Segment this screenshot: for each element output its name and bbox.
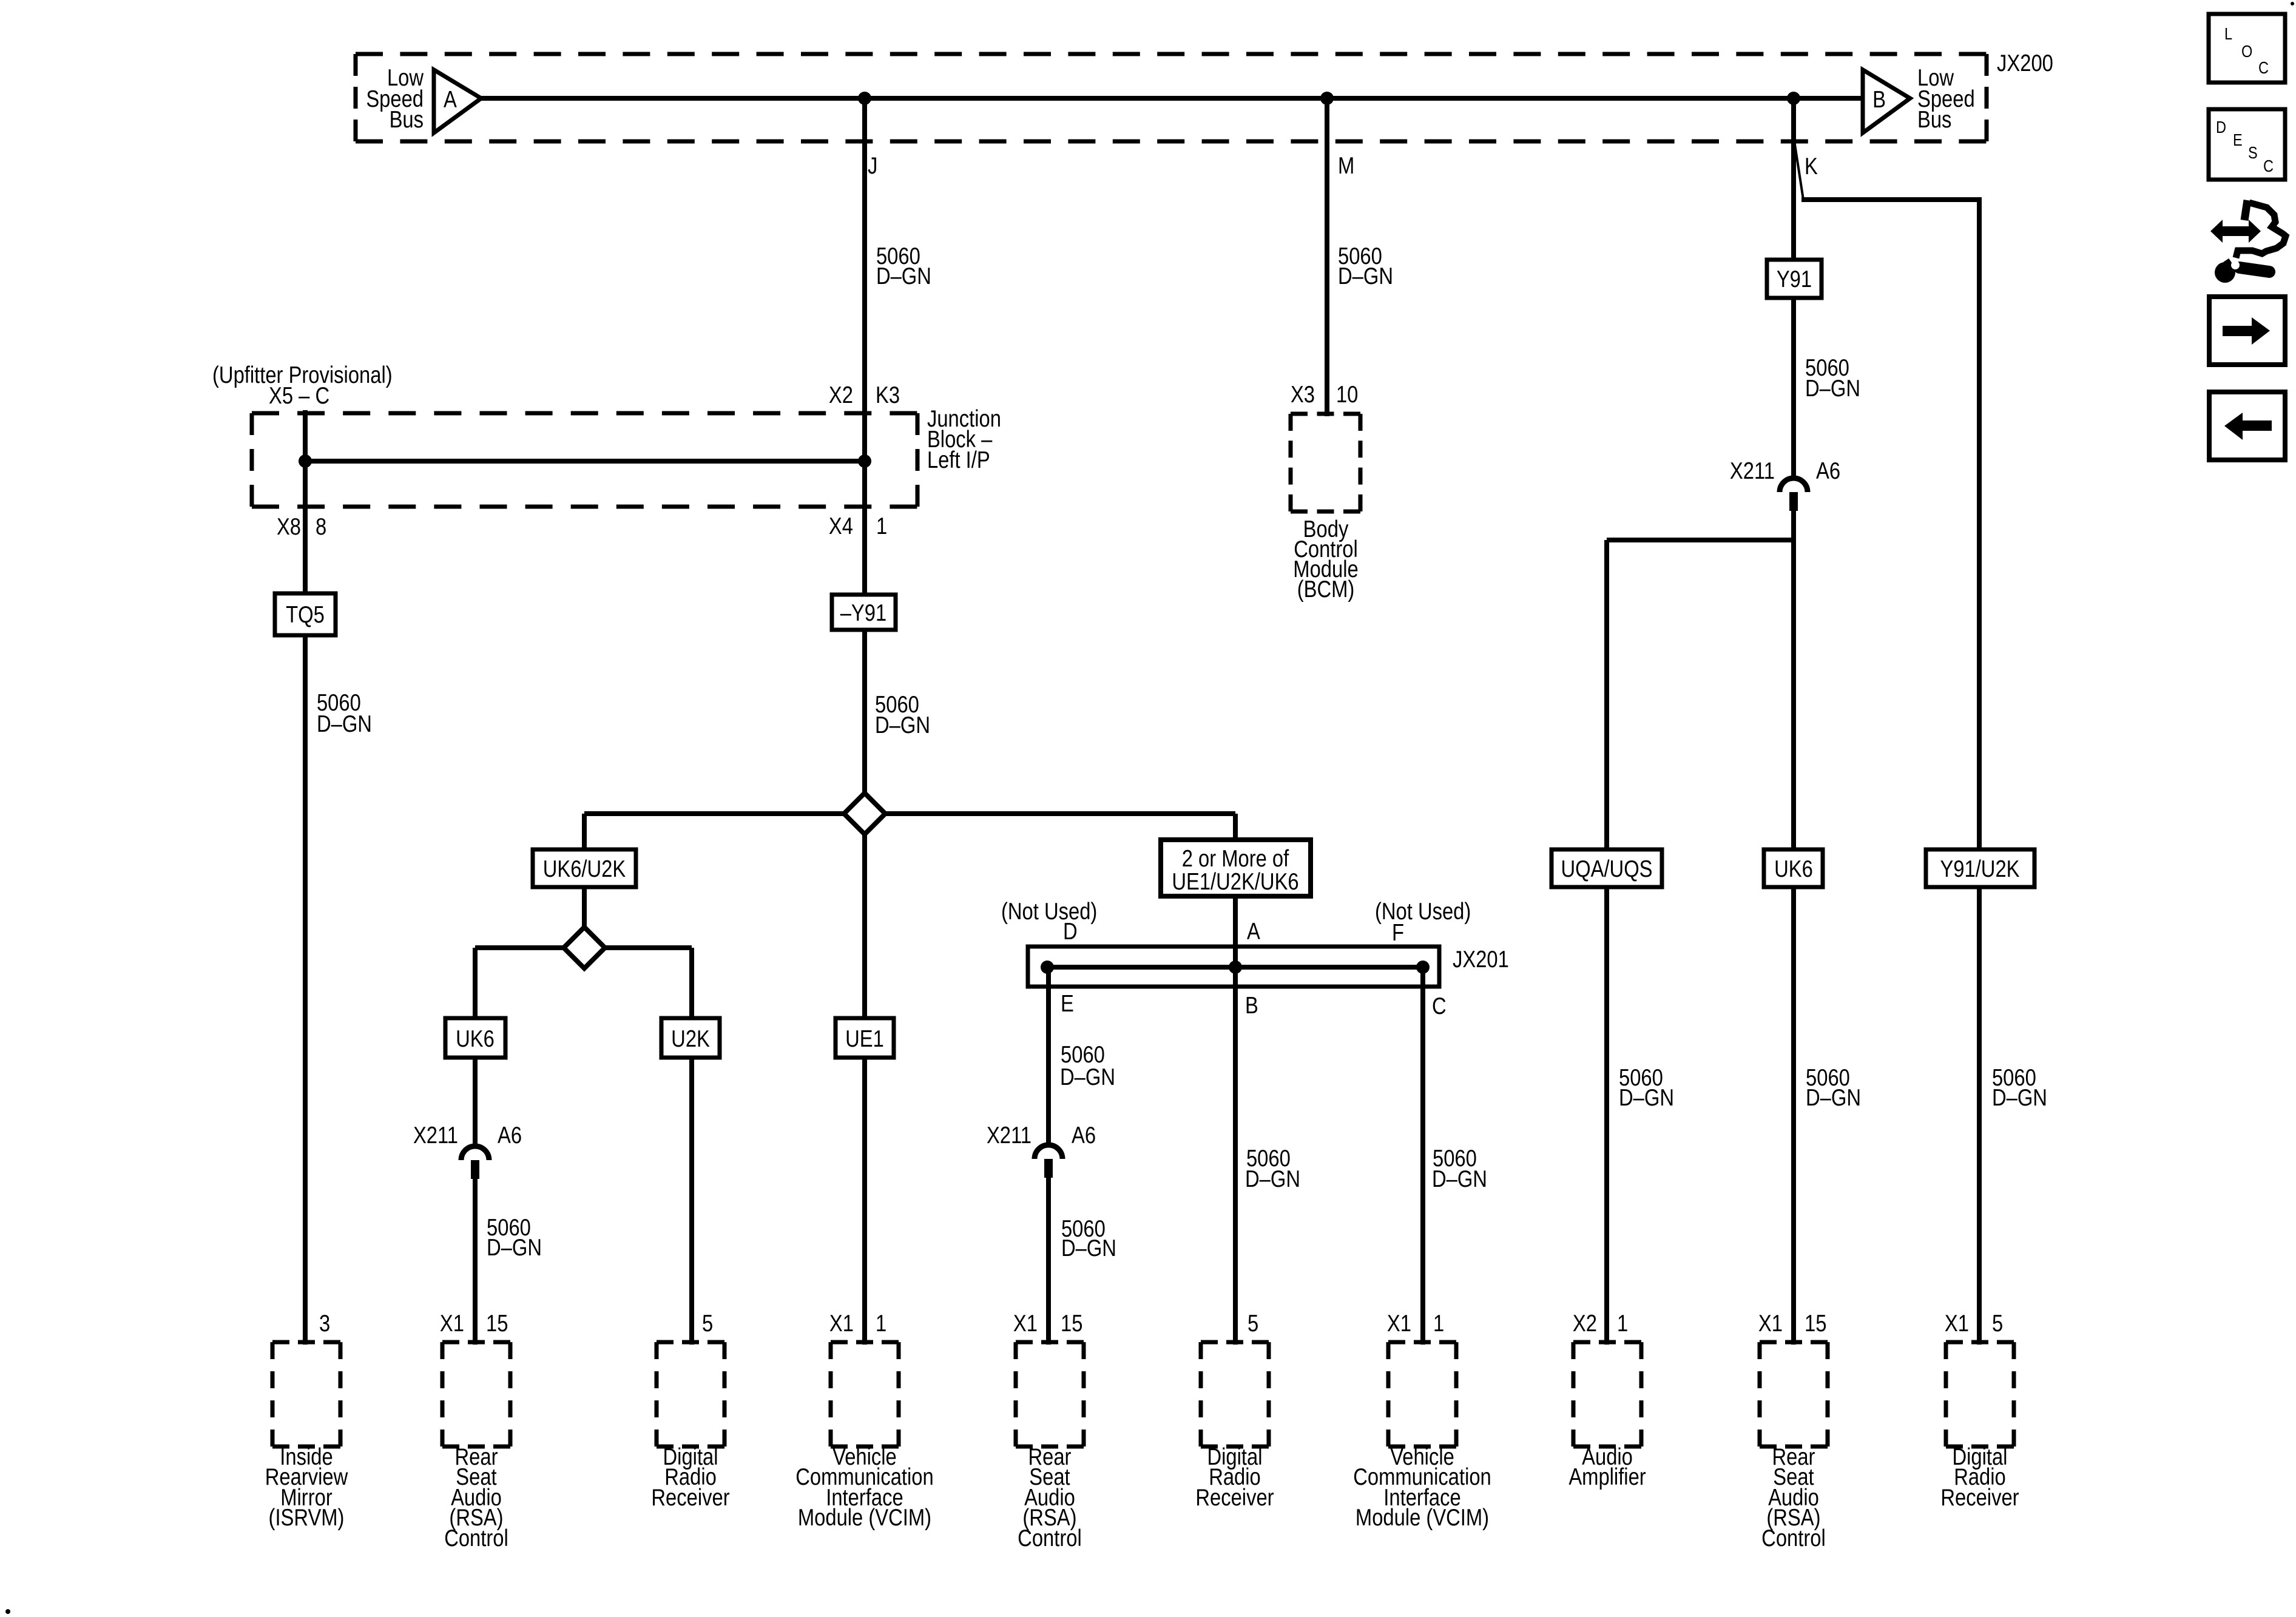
svg-text:Receiver: Receiver	[1195, 1484, 1274, 1510]
svg-text:JX200: JX200	[1997, 49, 2053, 76]
svg-text:Amplifier: Amplifier	[1568, 1463, 1646, 1490]
svg-text:D: D	[2216, 118, 2226, 137]
svg-text:10: 10	[1336, 380, 1358, 407]
svg-text:D–GN: D–GN	[1619, 1084, 1674, 1110]
svg-text:M: M	[1338, 152, 1354, 178]
svg-text:X211: X211	[413, 1121, 458, 1148]
svg-text:TQ5: TQ5	[286, 601, 325, 627]
svg-text:X211: X211	[987, 1121, 1032, 1148]
svg-text:15: 15	[1805, 1309, 1826, 1336]
svg-text:UE1: UE1	[845, 1025, 884, 1052]
svg-text:U2K: U2K	[671, 1025, 710, 1052]
svg-text:UK6: UK6	[456, 1025, 495, 1052]
svg-text:D–GN: D–GN	[1060, 1063, 1115, 1090]
svg-text:X2: X2	[1573, 1309, 1597, 1336]
svg-text:C: C	[1432, 992, 1447, 1019]
svg-text:(Not Used): (Not Used)	[1375, 897, 1471, 924]
svg-text:X2: X2	[829, 381, 853, 408]
svg-text:D–GN: D–GN	[1245, 1165, 1300, 1192]
svg-text:Control: Control	[1761, 1524, 1826, 1551]
svg-text:A: A	[1247, 917, 1260, 944]
svg-text:C: C	[2258, 59, 2269, 77]
svg-text:B: B	[1245, 991, 1258, 1018]
svg-text:K3: K3	[876, 381, 900, 408]
svg-text:JX201: JX201	[1453, 945, 1509, 972]
svg-text:UQA/UQS: UQA/UQS	[1561, 855, 1653, 882]
svg-text:F: F	[1392, 919, 1404, 945]
svg-text:1: 1	[1617, 1309, 1628, 1336]
svg-text:D–GN: D–GN	[1338, 262, 1393, 289]
svg-text:D–GN: D–GN	[1992, 1084, 2047, 1110]
svg-text:B: B	[1872, 86, 1886, 112]
svg-text:D–GN: D–GN	[875, 711, 930, 738]
svg-text:(ISRVM): (ISRVM)	[269, 1504, 345, 1530]
svg-text:5: 5	[702, 1309, 713, 1336]
svg-text:D: D	[1063, 917, 1078, 944]
svg-text:3: 3	[319, 1309, 330, 1336]
svg-text:X1: X1	[1945, 1309, 1969, 1336]
svg-text:(BCM): (BCM)	[1297, 575, 1355, 602]
svg-text:E: E	[1061, 990, 1074, 1016]
svg-text:X1: X1	[440, 1309, 464, 1336]
svg-text:Module (VCIM): Module (VCIM)	[1356, 1504, 1489, 1530]
svg-text:UK6: UK6	[1774, 855, 1813, 882]
svg-text:D–GN: D–GN	[317, 710, 372, 737]
svg-text:A6: A6	[1072, 1121, 1096, 1148]
svg-text:X5 – C: X5 – C	[269, 382, 329, 408]
svg-text:D–GN: D–GN	[1806, 1084, 1861, 1110]
svg-text:S: S	[2248, 144, 2258, 162]
svg-text:A: A	[444, 86, 457, 112]
svg-text:X1: X1	[1387, 1309, 1411, 1336]
svg-text:X3: X3	[1291, 380, 1315, 407]
svg-text:O: O	[2241, 42, 2252, 61]
svg-text:(Not Used): (Not Used)	[1001, 897, 1097, 924]
svg-text:Y91/U2K: Y91/U2K	[1940, 855, 2019, 882]
svg-text:X4: X4	[829, 512, 853, 539]
svg-text:5: 5	[1992, 1309, 2003, 1336]
svg-text:1: 1	[876, 1309, 886, 1336]
svg-text:UE1/U2K/UK6: UE1/U2K/UK6	[1172, 868, 1298, 894]
svg-text:D–GN: D–GN	[1805, 374, 1860, 401]
svg-text:Control: Control	[444, 1524, 508, 1551]
svg-text:1: 1	[1433, 1309, 1444, 1336]
svg-text:Y91: Y91	[1777, 265, 1812, 292]
svg-text:1: 1	[876, 512, 887, 539]
svg-text:D–GN: D–GN	[487, 1234, 542, 1260]
svg-text:Module (VCIM): Module (VCIM)	[798, 1504, 931, 1530]
svg-text:X1: X1	[829, 1309, 854, 1336]
svg-text:X1: X1	[1013, 1309, 1038, 1336]
svg-text:D–GN: D–GN	[1432, 1165, 1487, 1192]
svg-text:Bus: Bus	[390, 106, 424, 132]
svg-text:C: C	[2263, 157, 2274, 175]
svg-text:–Y91: –Y91	[840, 599, 886, 626]
svg-text:8: 8	[316, 513, 326, 539]
svg-text:L: L	[2224, 25, 2232, 43]
svg-text:Receiver: Receiver	[1940, 1484, 2019, 1510]
svg-text:15: 15	[1061, 1309, 1082, 1336]
svg-text:D–GN: D–GN	[876, 262, 931, 289]
svg-text:5: 5	[1248, 1309, 1258, 1336]
svg-text:A6: A6	[498, 1121, 522, 1148]
svg-text:Bus: Bus	[1917, 106, 1951, 132]
svg-text:E: E	[2233, 131, 2243, 149]
svg-text:Left I/P: Left I/P	[927, 446, 990, 473]
svg-text:X1: X1	[1758, 1309, 1783, 1336]
svg-text:K: K	[1805, 152, 1818, 179]
svg-text:UK6/U2K: UK6/U2K	[543, 855, 626, 882]
svg-text:Receiver: Receiver	[651, 1484, 729, 1510]
svg-text:D–GN: D–GN	[1061, 1234, 1116, 1261]
svg-text:X8: X8	[277, 513, 301, 539]
svg-text:A6: A6	[1816, 457, 1840, 484]
svg-text:J: J	[868, 152, 877, 178]
svg-text:15: 15	[486, 1309, 508, 1336]
svg-text:Control: Control	[1018, 1524, 1082, 1551]
svg-text:X211: X211	[1730, 457, 1775, 484]
